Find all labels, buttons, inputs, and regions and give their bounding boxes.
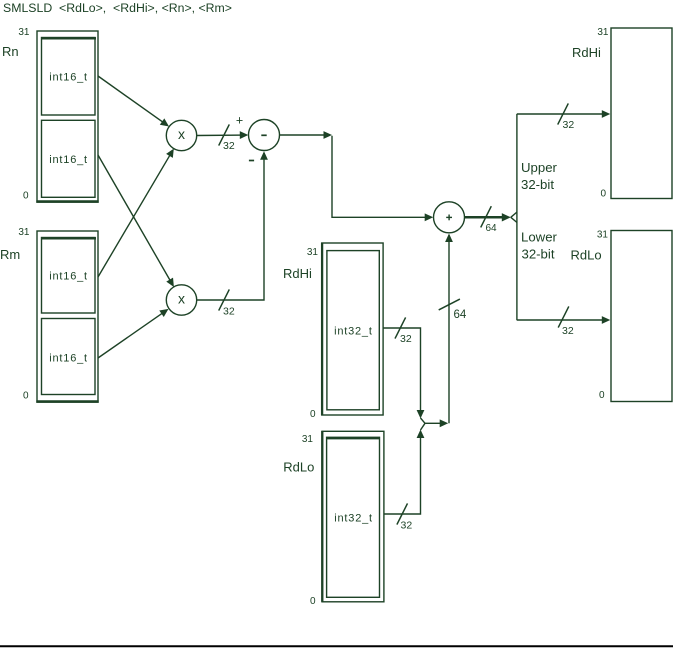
svg-text:32: 32	[562, 325, 574, 337]
wire subtractor output to corner	[280, 131, 333, 139]
output RdLo name label	[571, 248, 602, 263]
svg-text:RdHi: RdHi	[283, 266, 312, 281]
subtractor S1	[249, 120, 280, 151]
register RdLo accumulator bit 0 label	[310, 596, 316, 607]
svg-text:31: 31	[18, 227, 30, 238]
output register RdLo box	[611, 231, 672, 402]
output RdHi bit 31 label	[597, 27, 609, 38]
register Rn bit 0 label	[23, 191, 29, 202]
bus width label 32 on RdLo output	[401, 520, 413, 532]
register RdLo accumulator outer box	[322, 431, 384, 602]
svg-text:31: 31	[302, 434, 314, 445]
label Upper 32-bit	[521, 160, 558, 192]
subtractor plus sign label	[236, 114, 243, 128]
bus width label 32 lower	[562, 325, 574, 337]
svg-text:int16_t: int16_t	[49, 271, 88, 283]
svg-text:32: 32	[401, 520, 413, 532]
register Rm top half int16_t	[41, 238, 96, 314]
register Rn name label	[2, 44, 19, 59]
bus width label 64 on adder output	[486, 223, 498, 234]
merge chevron and wire to adder input	[421, 418, 449, 430]
bus width label 32 on M2 output	[223, 306, 235, 318]
bus width slash 32 on RdLo output	[397, 503, 408, 524]
svg-text:SMLSLD <RdLo>, <RdHi>, <Rn>,: SMLSLD <RdLo>, <RdHi>, <Rn>, <Rm>	[3, 1, 232, 15]
wire RdHi accumulator to merge point	[383, 328, 424, 419]
wire RdLo accumulator to merge point	[384, 430, 424, 515]
wire corner down and right to adder	[332, 136, 433, 222]
svg-text:32: 32	[223, 306, 235, 318]
title SMLSLD instruction	[3, 1, 232, 15]
register Rn top half int16_t	[41, 38, 96, 116]
bus width slash 32 upper	[558, 103, 569, 124]
register Rm bit 0 label	[23, 391, 29, 402]
bus width label 64 on adder input	[454, 309, 467, 321]
register Rn outer box	[36, 31, 98, 202]
svg-text:0: 0	[23, 191, 29, 202]
wire Rm bottom half to M2	[98, 309, 169, 358]
branch vertical wire	[516, 114, 518, 320]
wire Rm top half to M1	[98, 149, 174, 277]
register Rm bit 31 label	[18, 227, 30, 238]
wire Rn top half to M1	[98, 76, 169, 127]
svg-text:0: 0	[310, 409, 316, 420]
svg-text:int16_t: int16_t	[49, 353, 88, 365]
wire M1 to subtractor	[197, 131, 249, 139]
bottom horizontal rule	[0, 645, 673, 647]
bus width slash 32 on RdHi output	[395, 317, 406, 338]
register RdHi accumulator name label	[283, 266, 312, 281]
svg-text:Rm: Rm	[0, 247, 20, 262]
wire lower 32-bit to RdLo	[517, 316, 610, 324]
bus width slash 32 on M2 output	[219, 289, 230, 310]
bus width label 32 on RdHi output	[400, 333, 412, 345]
bus width slash 32 lower	[558, 306, 569, 327]
svg-text:int32_t: int32_t	[334, 513, 373, 525]
svg-text:RdHi: RdHi	[572, 45, 601, 60]
svg-text:RdLo: RdLo	[571, 248, 602, 263]
bus width label 32 on M1 output	[223, 140, 235, 152]
svg-text:32-bit: 32-bit	[522, 247, 555, 262]
wire Rn bottom half to M2	[98, 155, 174, 287]
register RdLo accumulator name label	[283, 459, 314, 474]
bus width slash 32 on M1 output	[219, 124, 230, 145]
svg-text:31: 31	[597, 230, 609, 241]
svg-text:Lower: Lower	[521, 230, 558, 245]
svg-text:32-bit: 32-bit	[521, 177, 554, 192]
wire upper 32-bit to RdHi	[517, 110, 610, 118]
svg-text:int16_t: int16_t	[49, 154, 88, 166]
svg-text:31: 31	[18, 27, 30, 38]
register RdHi accumulator bit 31 label	[307, 247, 319, 258]
wire adder output 64-bit	[465, 213, 511, 221]
bus width slash 64 on adder output	[481, 206, 492, 227]
register Rn bottom half int16_t	[42, 120, 96, 197]
output RdHi name label	[572, 45, 601, 60]
output RdHi bit 0 label	[600, 189, 606, 200]
output register RdHi box	[611, 28, 672, 199]
adder A1	[434, 202, 465, 233]
label Lower 32-bit	[521, 230, 558, 262]
register RdLo accumulator bit 31 label	[302, 434, 314, 445]
svg-text:32: 32	[400, 333, 412, 345]
svg-text:0: 0	[600, 189, 606, 200]
svg-text:32: 32	[563, 119, 575, 131]
output RdLo bit 31 label	[597, 230, 609, 241]
svg-text:64: 64	[486, 223, 498, 234]
register RdHi accumulator bit 0 label	[310, 409, 316, 420]
register RdHi accumulator inner box int32_t	[327, 251, 379, 410]
svg-text:32: 32	[223, 140, 235, 152]
register Rm outer box	[36, 231, 98, 402]
svg-text:31: 31	[597, 27, 609, 38]
svg-text:int16_t: int16_t	[49, 71, 88, 83]
svg-text:0: 0	[310, 596, 316, 607]
adder bottom input arrowhead	[445, 234, 453, 243]
bus width slash 64 on adder input	[439, 299, 460, 310]
output RdLo bit 0 label	[599, 390, 605, 401]
wire merge to adder	[448, 235, 450, 423]
svg-text:31: 31	[307, 247, 319, 258]
svg-text:RdLo: RdLo	[283, 459, 314, 474]
register RdHi accumulator outer box	[322, 243, 383, 416]
svg-text:64: 64	[454, 309, 467, 321]
svg-text:Upper: Upper	[521, 160, 558, 175]
wire M2 to subtractor minus input	[197, 151, 268, 300]
svg-text:0: 0	[599, 390, 605, 401]
svg-text:x: x	[178, 291, 185, 307]
register RdLo accumulator inner box int32_t	[327, 437, 380, 597]
register Rm name label	[0, 247, 20, 262]
svg-text:+: +	[236, 114, 243, 128]
branch split diagonals	[511, 212, 517, 223]
svg-text:x: x	[178, 126, 185, 142]
bus width label 32 upper	[563, 119, 575, 131]
multiplier M1	[166, 120, 196, 150]
register Rm bottom half int16_t	[42, 319, 96, 395]
register Rn bit 31 label	[18, 27, 30, 38]
subtractor minus sign label	[249, 160, 254, 162]
svg-text:0: 0	[23, 391, 29, 402]
svg-text:int32_t: int32_t	[334, 325, 373, 337]
multiplier M2	[166, 285, 196, 315]
svg-text:Rn: Rn	[2, 44, 19, 59]
